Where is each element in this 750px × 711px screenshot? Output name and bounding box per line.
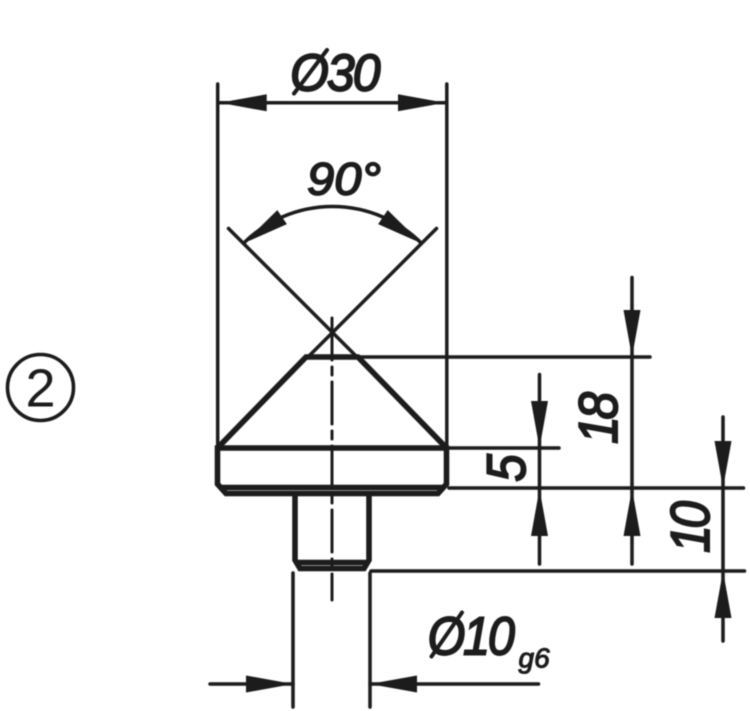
angle dimension arc 90deg bbox=[243, 206, 421, 243]
arrowhead 10 bottom bbox=[715, 571, 732, 618]
svg-text:O10: O10 bbox=[428, 605, 516, 666]
angle leg left (extension of right cone edge) bbox=[229, 229, 358, 358]
arrowhead dia10 right bbox=[370, 676, 417, 693]
stud sides, tip chamfers and bottom face edge bbox=[295, 491, 369, 569]
arrowhead 18 bottom bbox=[624, 489, 641, 536]
arrowhead 5 top bbox=[531, 401, 548, 448]
svg-text:5: 5 bbox=[477, 453, 538, 481]
dimension line dia 30 bbox=[220, 101, 445, 105]
extension line from cone top (18 dim) bbox=[359, 355, 651, 359]
dim dia10 right segment / leader bbox=[370, 682, 539, 686]
base sides, bottom chamfers and bottom face edge bbox=[218, 446, 447, 494]
angle leg right (extension of left cone edge) bbox=[308, 229, 437, 358]
extension line stud right (dia 10) bbox=[368, 573, 372, 707]
arrowhead dia30 left bbox=[220, 94, 267, 111]
arrowhead dia30 right bbox=[398, 94, 445, 111]
arrowhead dia10 left bbox=[246, 676, 293, 693]
svg-text:2: 2 bbox=[25, 359, 55, 419]
centerline (vertical dash-dot axis) bbox=[331, 318, 334, 600]
arrowhead arc left bbox=[243, 210, 287, 243]
dim line 18 (vertical) bbox=[630, 278, 634, 565]
dim line 10 (vertical) bbox=[721, 417, 725, 641]
arrowhead 18 top bbox=[624, 310, 641, 357]
position balloon circle bbox=[8, 355, 74, 421]
base chamfer shoulder line bbox=[220, 485, 444, 491]
extension line base top (5 dim) bbox=[446, 446, 559, 450]
extension line base bottom (long, 18/5/10 dims) bbox=[449, 486, 744, 490]
slash of diameter sign (10) bbox=[432, 613, 463, 657]
cone outline (flat top and slant edges) bbox=[218, 357, 447, 448]
extension line stud bottom (10 dim) bbox=[371, 569, 745, 573]
slash of diameter sign (30) bbox=[294, 50, 327, 94]
svg-text:10: 10 bbox=[661, 501, 722, 553]
stud chamfer shoulder line bbox=[295, 560, 369, 566]
arrowhead 5 bottom bbox=[531, 489, 548, 536]
svg-text:90°: 90° bbox=[307, 154, 381, 205]
svg-text:O30: O30 bbox=[290, 44, 380, 102]
svg-text:g6: g6 bbox=[519, 643, 551, 674]
dim dia10 left segment bbox=[210, 682, 293, 686]
arrowhead 10 top bbox=[715, 441, 732, 488]
arrowhead arc right bbox=[378, 210, 422, 243]
extension line left (dia 30) bbox=[216, 84, 220, 445]
svg-text:18: 18 bbox=[569, 392, 630, 444]
extension line stud left (dia 10) bbox=[291, 573, 295, 707]
dim line 5 (vertical) bbox=[538, 375, 542, 565]
base top edge bbox=[215, 445, 448, 451]
extension line right (dia 30) bbox=[445, 84, 449, 445]
